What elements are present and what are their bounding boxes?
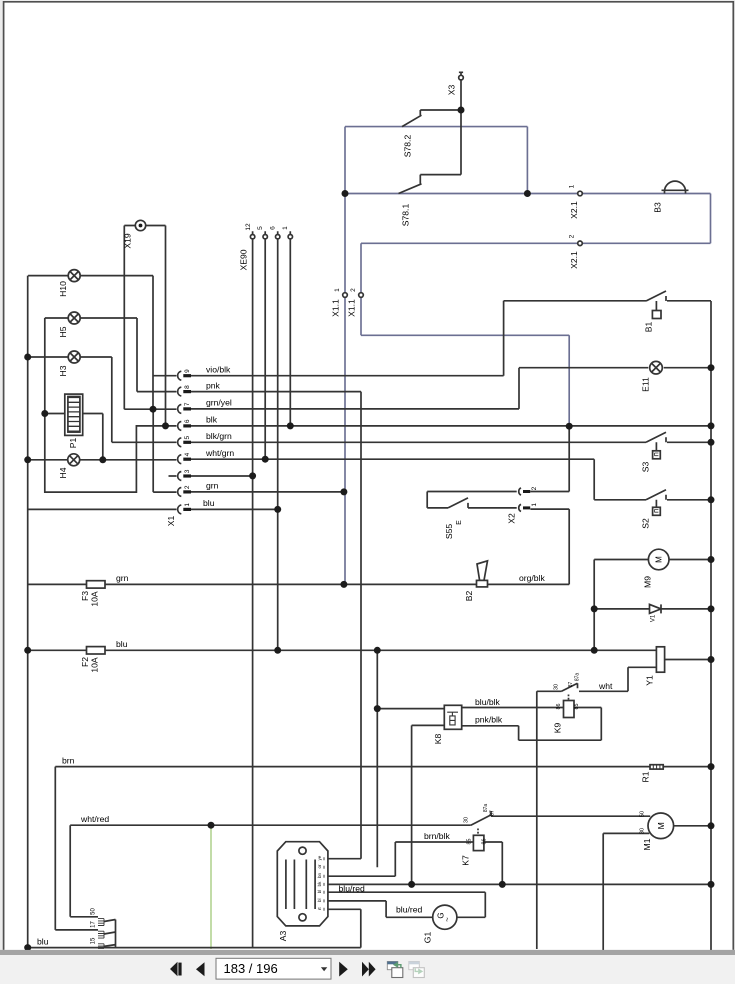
wire Y1 wht to K9 contact bbox=[579, 667, 656, 691]
node Y1 bus junction bbox=[708, 656, 715, 663]
svg-text:30: 30 bbox=[640, 828, 646, 834]
svg-text:X2.1: X2.1 bbox=[569, 201, 579, 219]
node P1 feed junction bbox=[41, 410, 48, 417]
switch S78.1 bbox=[420, 110, 461, 184]
buzzer B2 bbox=[477, 561, 488, 581]
svg-text:pnk: pnk bbox=[206, 380, 221, 390]
label X1 pin numbers bbox=[184, 369, 191, 507]
connector X1 pin 9 bbox=[178, 371, 182, 380]
wire X19 to X1-7 bbox=[124, 408, 176, 410]
wire XE90-6 drop bbox=[277, 239, 279, 650]
wire X1-4 wht/grn to S2 bbox=[191, 459, 711, 500]
svg-text:10A: 10A bbox=[90, 591, 100, 607]
resistor R1 bbox=[650, 765, 663, 769]
svg-text:M: M bbox=[655, 556, 664, 563]
svg-text:85: 85 bbox=[467, 839, 473, 845]
page number box bbox=[216, 958, 331, 979]
svg-text:Y1: Y1 bbox=[645, 675, 655, 686]
wire X1-3 to XE90-12 bbox=[191, 475, 253, 477]
status strip bbox=[0, 950, 735, 955]
switch K7 contact 30/87 bbox=[471, 811, 491, 825]
motor M1 bbox=[648, 813, 674, 839]
connector X1 pin 4 bbox=[178, 455, 182, 464]
svg-text:12: 12 bbox=[245, 223, 252, 231]
wire blue X1.1-2 vertical bbox=[360, 243, 362, 335]
node X3 junction bbox=[458, 107, 465, 114]
wire H3 feed bbox=[28, 356, 112, 358]
node V1 left junction bbox=[591, 605, 598, 612]
node X3 terminal stub bbox=[459, 72, 463, 110]
svg-text:X3: X3 bbox=[447, 85, 457, 96]
wire F3 grn rail to B2 bbox=[28, 509, 570, 584]
wire XE90-5 drop bbox=[264, 239, 266, 459]
svg-text:G1: G1 bbox=[423, 932, 433, 944]
wire X1-6 blk rail bbox=[191, 425, 711, 427]
relay K8 bbox=[444, 705, 461, 729]
connector X1 pin 8 bbox=[178, 387, 182, 396]
svg-text:blk/grn: blk/grn bbox=[206, 431, 232, 441]
connector X1 pin 7 bbox=[178, 404, 182, 413]
wire K9 coil left blu/blk bbox=[462, 707, 564, 709]
lamp H5 bbox=[68, 312, 80, 324]
connector XE90 pins 12,5,6,1 bbox=[253, 231, 291, 234]
wire M1 ground drop bbox=[603, 833, 649, 950]
svg-text:86: 86 bbox=[556, 704, 562, 710]
connector X1 pin 1 bbox=[178, 505, 182, 514]
svg-text:1: 1 bbox=[531, 503, 538, 507]
connector X2 pin 1 bbox=[519, 504, 521, 511]
svg-text:F2: F2 bbox=[80, 657, 90, 667]
svg-text:org/blk: org/blk bbox=[519, 573, 545, 583]
svg-text:B2: B2 bbox=[464, 591, 474, 602]
svg-text:2: 2 bbox=[184, 485, 191, 489]
wire A3 pin7 to bottom blu rail bbox=[324, 909, 361, 947]
wire blue jog toward blk net bbox=[361, 334, 569, 336]
svg-text:S3: S3 bbox=[641, 462, 651, 473]
connector X1 pin 6 bbox=[178, 421, 182, 430]
wire H10 to X1-9 drop bbox=[153, 276, 177, 410]
svg-text:bn: bn bbox=[317, 873, 322, 878]
svg-text:blu: blu bbox=[116, 639, 128, 649]
lamp E11 bbox=[650, 361, 663, 374]
wire H5 to X1-8 drop bbox=[137, 318, 177, 392]
node S2 bus junction bbox=[708, 496, 715, 503]
wire X1-3 stub left bbox=[169, 475, 177, 477]
regulator A3 bbox=[277, 842, 328, 926]
svg-text:grn/yel: grn/yel bbox=[206, 398, 232, 408]
wire blue B3 right side bbox=[710, 194, 712, 244]
svg-text:30: 30 bbox=[464, 817, 470, 823]
svg-text:blu/red: blu/red bbox=[396, 905, 422, 915]
svg-text:2: 2 bbox=[350, 288, 357, 292]
wire brn rail bbox=[55, 767, 711, 930]
svg-text:grn: grn bbox=[116, 573, 129, 583]
wire K9 coil right loop pnk/blk bbox=[462, 708, 602, 741]
node blk seat-switch junction bbox=[566, 423, 573, 430]
svg-text:2: 2 bbox=[531, 486, 538, 490]
svg-text:X1: X1 bbox=[166, 516, 176, 527]
svg-text:ye: ye bbox=[317, 855, 322, 860]
wire X2-2 drop below blk junction bbox=[568, 426, 570, 491]
node grn X1.1 junction bbox=[340, 488, 347, 495]
svg-text:P1: P1 bbox=[68, 438, 78, 449]
wire V1 row bbox=[594, 608, 711, 610]
svg-text:X1.1: X1.1 bbox=[347, 299, 357, 317]
svg-text:blk: blk bbox=[206, 415, 218, 425]
svg-text:brn/blk: brn/blk bbox=[424, 831, 450, 841]
node E11 bus junction bbox=[708, 364, 715, 371]
svg-text:1: 1 bbox=[282, 226, 289, 230]
svg-text:87: 87 bbox=[568, 682, 574, 688]
svg-text:4: 4 bbox=[184, 452, 191, 456]
lamp H3 bbox=[68, 351, 80, 363]
wire blue X2.1-2 return rail bbox=[361, 242, 711, 244]
wire M1-30 right bbox=[674, 825, 711, 827]
node K8 blu rail junction bbox=[374, 647, 381, 654]
wire blu/red rail A3 to bus bbox=[324, 883, 711, 885]
node V1 bus junction bbox=[708, 605, 715, 612]
wire H4 feed to X1-4 bbox=[28, 459, 177, 461]
svg-text:wht: wht bbox=[598, 681, 613, 691]
motor M9 bbox=[648, 549, 669, 570]
switch S2 bbox=[646, 490, 666, 508]
svg-text:50: 50 bbox=[91, 908, 97, 915]
node XE90-5 wht/grn junction bbox=[262, 456, 269, 463]
wire A3 pin5 to G1 right bbox=[324, 892, 485, 917]
svg-text:15: 15 bbox=[91, 937, 97, 944]
svg-text:50: 50 bbox=[640, 811, 646, 817]
switch S55 loop X2-2 to X2-1 bbox=[427, 492, 517, 508]
diode V1 bbox=[650, 604, 662, 613]
lamp H10 bbox=[68, 270, 80, 282]
svg-text:K7: K7 bbox=[461, 855, 471, 866]
connector X1 pins 9..1 bbox=[178, 371, 191, 514]
wire X1-5 blk/grn to S3 bbox=[191, 441, 711, 443]
wire blue horn rail S78.1 to B3 bbox=[345, 193, 711, 195]
svg-text:blu: blu bbox=[203, 498, 215, 508]
svg-text:blu/red: blu/red bbox=[339, 883, 365, 893]
svg-text:M: M bbox=[656, 822, 666, 829]
node wht/red crank junction bbox=[208, 822, 215, 829]
svg-text:6: 6 bbox=[270, 226, 277, 230]
button previous view bbox=[387, 962, 398, 970]
svg-text:M9: M9 bbox=[643, 576, 653, 588]
node blk bus junction bbox=[708, 422, 715, 429]
svg-text:pnk/blk: pnk/blk bbox=[475, 715, 503, 725]
node M9 bus junction bbox=[708, 556, 715, 563]
svg-text:H3: H3 bbox=[58, 365, 68, 376]
connector X2.1 pin 1 bbox=[578, 191, 583, 196]
generator G1 bbox=[433, 905, 457, 929]
svg-text:or: or bbox=[317, 864, 322, 868]
svg-text:X2.1: X2.1 bbox=[569, 251, 579, 269]
solenoid Y1 bbox=[656, 647, 664, 672]
wire K7 coil right drop bbox=[484, 842, 502, 884]
node P1 H4 junction bbox=[99, 456, 106, 463]
wire blue drop to S78.1 node bbox=[526, 127, 528, 194]
wire X1-1 blu right bbox=[191, 508, 278, 510]
wire ignition crank link green bbox=[210, 825, 212, 949]
connector X19 frame bbox=[124, 226, 165, 426]
node K7 blu/red junction bbox=[499, 881, 506, 888]
button next view disabled bbox=[409, 962, 420, 970]
svg-text:bk: bk bbox=[317, 881, 322, 886]
connector X2 pin 2 bbox=[519, 488, 521, 495]
svg-text:2: 2 bbox=[569, 234, 576, 238]
svg-text:B1: B1 bbox=[644, 322, 654, 333]
svg-text:~: ~ bbox=[443, 917, 452, 922]
gauge P1 bbox=[65, 394, 83, 435]
wire H5 feed bbox=[45, 317, 137, 319]
svg-text:7: 7 bbox=[184, 402, 191, 406]
svg-text:87: 87 bbox=[490, 810, 496, 816]
svg-text:blu/blk: blu/blk bbox=[475, 697, 501, 707]
fuse F2 10A bbox=[87, 647, 106, 654]
svg-text:XE90: XE90 bbox=[239, 249, 249, 270]
wire X1-1 blu left bbox=[28, 508, 177, 510]
button next page bbox=[339, 962, 348, 977]
label ignition terminals 50 17 15 bbox=[91, 908, 97, 945]
wire X1-2 grn left bbox=[153, 409, 176, 492]
svg-text:5: 5 bbox=[257, 226, 264, 230]
node F2 bus junction bbox=[24, 647, 31, 654]
wire K7 coil left brn/blk to A3 bbox=[324, 842, 473, 876]
wire A3 pin6 blu/red to G1 left bbox=[324, 901, 433, 917]
node H4 feed junction bbox=[24, 456, 31, 463]
node blu/red bus junction bbox=[708, 881, 715, 888]
svg-text:6: 6 bbox=[184, 419, 191, 423]
wire blue top rail S78.2 net bbox=[345, 126, 527, 128]
svg-text:brn: brn bbox=[62, 755, 75, 765]
switch S1 ignition combs bbox=[98, 919, 104, 949]
svg-text:87a: 87a bbox=[483, 804, 489, 813]
wire blue left vertical X1.1-1 net bbox=[344, 127, 346, 585]
wire K7-87 to M1-50 bbox=[491, 815, 650, 817]
svg-text:X1.1: X1.1 bbox=[331, 299, 341, 317]
horn B3 bbox=[662, 190, 689, 193]
svg-text:1: 1 bbox=[184, 503, 191, 507]
node grn/yel junction bbox=[150, 406, 157, 413]
svg-text:grn: grn bbox=[206, 481, 219, 491]
node bottom blu junction bbox=[24, 944, 31, 951]
wire K9-30 drop bbox=[536, 691, 538, 949]
switch B1 bbox=[646, 291, 666, 311]
svg-text:S55: S55 bbox=[444, 524, 454, 540]
svg-text:E11: E11 bbox=[641, 377, 651, 392]
wire K8 left to blu/red node bbox=[412, 725, 445, 884]
node S3 bus junction bbox=[708, 439, 715, 446]
svg-text:A3: A3 bbox=[278, 931, 288, 942]
svg-text:H4: H4 bbox=[58, 467, 68, 478]
svg-text:wht/grn: wht/grn bbox=[205, 448, 234, 458]
svg-text:86: 86 bbox=[482, 839, 488, 845]
svg-text:S78.1: S78.1 bbox=[401, 204, 411, 227]
node XE90-1 blk junction bbox=[287, 422, 294, 429]
wire blue drop to blk junction bbox=[568, 335, 570, 426]
wire left lamp bus bbox=[27, 276, 29, 948]
wire X1-7 grn/yel to E11 bbox=[191, 368, 711, 409]
node K8 feed junction bbox=[374, 705, 381, 712]
svg-text:1: 1 bbox=[334, 288, 341, 292]
button previous page with stop bbox=[170, 962, 178, 977]
svg-text:17: 17 bbox=[91, 921, 97, 928]
lamp H4 bbox=[68, 454, 80, 466]
svg-text:H10: H10 bbox=[58, 281, 68, 297]
wire bottom blu rail bbox=[28, 947, 361, 949]
wire P1 leads bbox=[45, 414, 103, 460]
label A3 pin wire colours bbox=[317, 855, 322, 910]
node XE90-6 blu rail junction bbox=[274, 647, 281, 654]
connector X1.1 pin 1 bbox=[343, 293, 348, 298]
node brn bus junction bbox=[708, 763, 715, 770]
connector X1 pin 5 bbox=[178, 438, 182, 447]
wire M9 feed bbox=[594, 560, 711, 651]
node H3 feed junction bbox=[24, 354, 31, 361]
node A3 pin ticks bbox=[323, 857, 325, 911]
wire X1-2 grn right bbox=[191, 491, 344, 493]
wire Y1 to bus bbox=[665, 659, 712, 661]
wire wht/red rail to K7 bbox=[70, 825, 471, 917]
relay K7 coil 85/86 bbox=[473, 835, 484, 850]
wire right supply bus bbox=[710, 301, 712, 950]
node S78.1 left junction bbox=[342, 190, 349, 197]
node XE90-6 blu junction bbox=[274, 506, 281, 513]
node M1 bus junction bbox=[708, 822, 715, 829]
svg-text:183 / 196: 183 / 196 bbox=[224, 961, 278, 976]
node M9 blu rail junction bbox=[591, 647, 598, 654]
relay K9 contact 30/87 bbox=[537, 690, 562, 692]
svg-text:F3: F3 bbox=[80, 591, 90, 601]
svg-text:bl: bl bbox=[317, 890, 322, 893]
button previous page bbox=[196, 962, 205, 976]
wire K8 feed from blu rail bbox=[377, 650, 444, 867]
wire H3 to X1-5 drop bbox=[112, 357, 177, 442]
node S78.1 right junction bbox=[524, 190, 531, 197]
node XE90-12 X1-3 junction bbox=[249, 472, 256, 479]
svg-text:1: 1 bbox=[569, 184, 576, 188]
svg-text:3: 3 bbox=[184, 469, 191, 473]
connector X2.1 pin 2 bbox=[578, 241, 583, 246]
svg-text:87a: 87a bbox=[575, 673, 581, 682]
connector X1 pin 3 bbox=[178, 472, 182, 481]
wire XE90-12 drop bbox=[252, 239, 254, 949]
svg-text:wht/red: wht/red bbox=[80, 814, 109, 824]
fuse F3 10A bbox=[87, 581, 106, 588]
svg-text:vio/blk: vio/blk bbox=[206, 364, 231, 374]
svg-text:8: 8 bbox=[184, 385, 191, 389]
node X19 blk junction bbox=[162, 422, 169, 429]
node K8 blu/red junction bbox=[408, 881, 415, 888]
svg-text:85: 85 bbox=[574, 704, 580, 710]
wire XE90-1 drop bbox=[289, 239, 291, 426]
wire X1-9 vio/blk to B1 bbox=[191, 301, 711, 376]
svg-text:X19: X19 bbox=[123, 233, 133, 249]
svg-text:K9: K9 bbox=[553, 723, 563, 734]
svg-text:blu: blu bbox=[37, 936, 49, 946]
svg-text:V1: V1 bbox=[651, 614, 657, 622]
connector X1 pin 2 bbox=[178, 487, 182, 496]
wire H10 feed bbox=[28, 275, 153, 277]
svg-text:10A: 10A bbox=[90, 657, 100, 673]
socket X19 bbox=[135, 220, 145, 230]
svg-text:H5: H5 bbox=[58, 326, 68, 337]
connector X1.1 pin 2 bbox=[359, 293, 364, 298]
svg-text:M1: M1 bbox=[642, 838, 652, 850]
svg-text:X2: X2 bbox=[507, 513, 517, 524]
svg-text:B3: B3 bbox=[653, 202, 663, 213]
svg-text:K8: K8 bbox=[433, 734, 443, 745]
svg-text:9: 9 bbox=[184, 369, 191, 373]
svg-text:30: 30 bbox=[554, 684, 560, 690]
svg-text:E: E bbox=[456, 520, 463, 525]
wire F2 blu rail to Y1 bbox=[28, 649, 657, 651]
svg-text:5: 5 bbox=[184, 436, 191, 440]
switch S3 bbox=[646, 432, 666, 451]
button last page bbox=[362, 962, 369, 977]
svg-text:S2: S2 bbox=[641, 518, 651, 529]
svg-text:S78.2: S78.2 bbox=[403, 135, 413, 158]
relay K9 coil 86/85 bbox=[564, 701, 575, 718]
svg-text:R1: R1 bbox=[641, 771, 651, 782]
switch S1 wipers bbox=[104, 920, 116, 949]
svg-text:bl: bl bbox=[317, 899, 322, 902]
wire ground U loop P1/H5 to X1-6 bbox=[45, 318, 177, 492]
node X1.1-1 grn rail junction bbox=[340, 581, 347, 588]
wire X2-2 to blk net bbox=[530, 491, 569, 493]
wire X1-8 pnk to A3 bbox=[191, 392, 361, 859]
switch S78.2 bbox=[420, 110, 461, 115]
